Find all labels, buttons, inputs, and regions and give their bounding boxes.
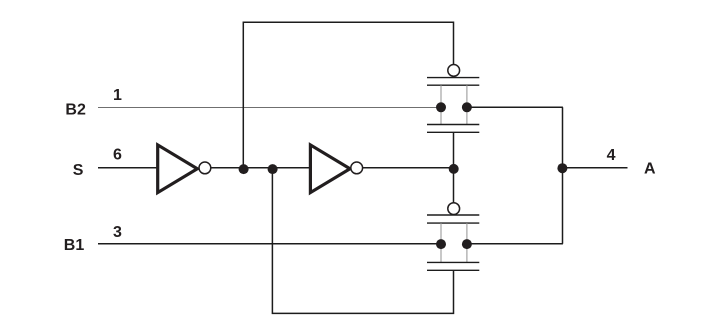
- transistor Q2 bottom gate plate: [427, 269, 479, 271]
- transistor Q2 right channel lead: [466, 223, 468, 262]
- inverter U2 bubble: [351, 162, 363, 174]
- wire B1 input: [98, 243, 442, 245]
- wire bottom rail: [272, 169, 453, 313]
- transistor Q1 bottom channel plate: [427, 124, 479, 126]
- wire output column vertical: [562, 107, 564, 244]
- wire output A: [562, 167, 627, 169]
- transistor Q2 top gate plate: [427, 214, 479, 216]
- junction Q1 left: [436, 102, 446, 112]
- inverter U2 triangle: [310, 145, 350, 193]
- wire S input: [98, 167, 157, 169]
- svg-text:3: 3: [113, 224, 122, 241]
- transistor Q2 top channel plate: [427, 222, 479, 224]
- junction node S2 at gate column: [449, 164, 459, 174]
- wire bottom gate channel to output column: [466, 243, 563, 245]
- transistor Q1 top gate plate: [427, 77, 479, 79]
- wire top rail: [243, 22, 453, 169]
- inverter U1 bubble: [199, 162, 211, 174]
- transistor Q1 left channel lead: [440, 85, 442, 124]
- wire B2 input: [98, 107, 441, 109]
- junction node S-bar 1: [239, 164, 249, 174]
- svg-text:1: 1: [113, 87, 122, 104]
- svg-text:6: 6: [113, 146, 122, 163]
- junction Q1 right: [462, 102, 472, 112]
- junction Q2 left: [436, 239, 446, 249]
- junction Q2 right: [462, 239, 472, 249]
- junction node A column: [557, 163, 567, 173]
- wire inverter2 out to gate column: [363, 167, 454, 169]
- transistor Q1 top channel plate: [427, 84, 479, 86]
- svg-text:B2: B2: [65, 102, 86, 119]
- wire gate-to-gate vertical: [453, 132, 455, 202]
- transistor Q2 bottom channel plate: [427, 261, 479, 263]
- svg-text:4: 4: [607, 147, 616, 164]
- inverter U1 triangle: [158, 145, 198, 193]
- transistor Q1 bottom gate plate: [427, 131, 479, 133]
- transistor Q1 gate bubble: [448, 65, 460, 77]
- svg-text:S: S: [73, 162, 84, 179]
- transistor Q2 left channel lead: [440, 223, 442, 262]
- svg-text:B1: B1: [64, 237, 85, 254]
- transistor Q1 right channel lead: [466, 85, 468, 124]
- wire inverter1 out to inverter2 in: [211, 167, 311, 169]
- wire top gate channel to output column: [466, 106, 563, 108]
- junction node S-bar 2: [268, 164, 278, 174]
- transistor Q2 gate bubble: [448, 203, 460, 215]
- svg-text:A: A: [644, 160, 656, 177]
